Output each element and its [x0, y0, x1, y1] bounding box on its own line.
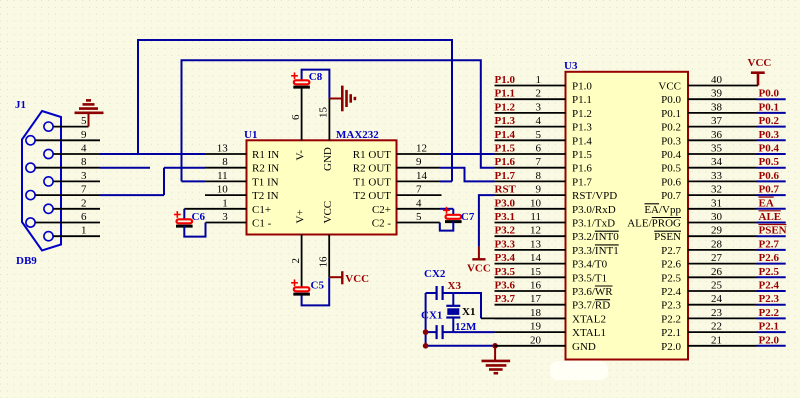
svg-text:P1.1: P1.1 — [572, 94, 592, 106]
wire top bus 2 left drop to T1 IN — [182, 180, 206, 182]
svg-text:16: 16 — [530, 280, 542, 292]
svg-text:P2.7: P2.7 — [661, 245, 681, 257]
U1 left pin names — [252, 149, 279, 230]
svg-text:23: 23 — [711, 307, 723, 319]
capacitor C5 — [291, 277, 329, 305]
svg-text:27: 27 — [711, 252, 723, 264]
svg-text:P0.6: P0.6 — [661, 176, 681, 188]
svg-text:P3.4: P3.4 — [495, 252, 516, 264]
svg-text:P2.4: P2.4 — [759, 280, 780, 292]
svg-text:V+: V+ — [295, 209, 307, 223]
svg-text:VCC: VCC — [658, 81, 681, 93]
svg-text:XTAL2: XTAL2 — [572, 313, 606, 325]
svg-text:P1.5: P1.5 — [572, 149, 592, 161]
capacitor C8 — [291, 70, 329, 99]
svg-text:12: 12 — [416, 143, 427, 155]
svg-text:16: 16 — [318, 256, 330, 268]
U3 right pin names — [627, 81, 681, 353]
svg-text:40: 40 — [711, 74, 723, 86]
svg-text:P1.2: P1.2 — [495, 101, 516, 113]
svg-text:31: 31 — [711, 197, 722, 209]
svg-text:11: 11 — [217, 170, 228, 182]
svg-text:P1.7: P1.7 — [495, 170, 516, 182]
U1 right pin stubs and numbers — [397, 143, 442, 224]
U1 pin 15 stub (GND) — [328, 99, 330, 141]
svg-text:VCC: VCC — [345, 273, 369, 285]
svg-text:C8: C8 — [309, 71, 323, 83]
svg-text:3: 3 — [222, 211, 228, 223]
svg-text:P0.6: P0.6 — [759, 170, 780, 182]
svg-text:P2.6: P2.6 — [759, 252, 780, 264]
svg-text:26: 26 — [711, 266, 723, 278]
svg-text:MAX232: MAX232 — [336, 129, 379, 141]
svg-text:ALE: ALE — [759, 211, 782, 223]
svg-text:2: 2 — [290, 258, 302, 264]
junction rail-GND — [423, 343, 429, 349]
svg-text:22: 22 — [711, 321, 722, 333]
svg-text:7: 7 — [81, 184, 87, 196]
svg-text:3: 3 — [81, 170, 87, 182]
svg-text:T2 OUT: T2 OUT — [353, 190, 391, 202]
svg-text:P1.0: P1.0 — [495, 74, 516, 86]
svg-text:XTAL1: XTAL1 — [572, 327, 606, 339]
svg-text:P1.7: P1.7 — [572, 176, 592, 188]
wire riser DB9 pin7 to R2 IN row — [163, 168, 165, 195]
svg-text:U3: U3 — [564, 60, 578, 72]
svg-text:14: 14 — [530, 252, 542, 264]
junction GND node — [492, 343, 498, 349]
svg-text:P3.2: P3.2 — [495, 225, 516, 237]
svg-text:CX2: CX2 — [424, 268, 446, 280]
svg-text:P1.5: P1.5 — [495, 143, 516, 155]
svg-text:P2.0: P2.0 — [661, 341, 681, 353]
svg-text:R2 OUT: R2 OUT — [353, 163, 391, 175]
U1 left pin stubs and numbers — [184, 143, 246, 224]
svg-text:29: 29 — [711, 225, 723, 237]
svg-text:C1 -: C1 - — [252, 218, 272, 230]
svg-text:8: 8 — [81, 156, 87, 168]
wire DB9.4 net to top bus 1 — [138, 40, 452, 181]
U1 pin 16 stub (VCC) — [328, 235, 330, 278]
svg-text:R1 IN: R1 IN — [252, 149, 279, 161]
VCC symbol at U1 pin 16 — [329, 271, 369, 285]
svg-text:P1.6: P1.6 — [572, 163, 592, 175]
svg-text:35: 35 — [711, 143, 723, 155]
svg-text:X3: X3 — [448, 280, 462, 292]
U3 left pin stubs and numbers — [495, 74, 566, 346]
svg-text:7: 7 — [536, 156, 542, 168]
svg-text:EA/Vpp: EA/Vpp — [644, 204, 681, 216]
svg-text:1: 1 — [81, 225, 87, 237]
erased watermark blob — [550, 361, 608, 380]
svg-text:P1.6: P1.6 — [495, 156, 516, 168]
svg-text:28: 28 — [711, 238, 723, 250]
J1 pin 4 wire and number (net to R1 IN) — [53, 153, 100, 155]
crystal X1 — [446, 293, 460, 332]
svg-text:1: 1 — [536, 74, 542, 86]
svg-text:P0.1: P0.1 — [759, 101, 779, 113]
svg-text:P1.1: P1.1 — [495, 88, 515, 100]
wire crystal left rail — [425, 293, 427, 346]
svg-text:P1.4: P1.4 — [495, 129, 516, 141]
svg-text:9: 9 — [536, 184, 542, 196]
svg-text:2: 2 — [81, 197, 87, 209]
U3 right pin stubs and numbers — [688, 74, 786, 346]
svg-text:34: 34 — [711, 156, 723, 168]
svg-text:8: 8 — [222, 156, 228, 168]
svg-text:P1.2: P1.2 — [572, 108, 592, 120]
svg-text:P3.1/TxD: P3.1/TxD — [572, 218, 615, 230]
svg-text:P1.3: P1.3 — [495, 115, 516, 127]
svg-text:21: 21 — [711, 334, 722, 346]
IC U3 89C51 body — [566, 72, 689, 360]
svg-text:CX1: CX1 — [421, 310, 442, 322]
svg-text:P3.2/INT0: P3.2/INT0 — [572, 231, 619, 243]
svg-text:12: 12 — [530, 225, 541, 237]
svg-text:P0.2: P0.2 — [759, 115, 780, 127]
svg-text:P0.5: P0.5 — [661, 163, 681, 175]
svg-text:P2.5: P2.5 — [759, 266, 780, 278]
svg-text:P0.7: P0.7 — [759, 184, 780, 196]
svg-text:P2.5: P2.5 — [661, 272, 681, 284]
svg-text:P3.7: P3.7 — [495, 293, 516, 305]
capacitor CX1 — [426, 325, 454, 339]
IC U1 MAX232 body — [247, 140, 397, 234]
svg-text:C1+: C1+ — [252, 204, 271, 216]
capacitor C6 — [174, 209, 206, 237]
svg-text:1: 1 — [222, 197, 228, 209]
svg-text:38: 38 — [711, 101, 723, 113]
ground symbol at U3 GND — [482, 346, 511, 373]
svg-text:5: 5 — [536, 129, 542, 141]
svg-text:2: 2 — [536, 88, 542, 100]
svg-text:17: 17 — [530, 293, 542, 305]
junction rail-CX1 — [423, 329, 429, 335]
ground symbol at J1 pin 5 — [75, 100, 104, 126]
svg-text:4: 4 — [81, 143, 87, 155]
svg-text:P2.3: P2.3 — [759, 293, 780, 305]
svg-text:P3.5: P3.5 — [495, 266, 516, 278]
svg-text:9: 9 — [81, 129, 87, 141]
svg-text:P1.3: P1.3 — [572, 122, 592, 134]
svg-text:EA: EA — [759, 197, 774, 209]
svg-text:R2 IN: R2 IN — [252, 163, 279, 175]
capacitor C7 — [440, 207, 462, 231]
svg-text:GND: GND — [322, 147, 334, 171]
svg-text:10: 10 — [530, 197, 542, 209]
J1 pin 7 wire and number (net to R2 IN) — [35, 194, 100, 196]
wire GND row to rail — [426, 345, 496, 347]
svg-text:P2.2: P2.2 — [759, 307, 780, 319]
svg-text:P2.1: P2.1 — [759, 321, 779, 333]
svg-text:P2.0: P2.0 — [759, 334, 780, 346]
J1 pin 9 wire and number — [35, 139, 100, 141]
svg-text:PSEN: PSEN — [759, 225, 787, 237]
svg-text:P3.6: P3.6 — [495, 280, 516, 292]
svg-text:R1 OUT: R1 OUT — [353, 149, 391, 161]
svg-text:C2 -: C2 - — [372, 218, 392, 230]
svg-text:20: 20 — [530, 334, 542, 346]
VCC symbol at U3 pin 40 — [748, 57, 772, 86]
svg-text:P2.7: P2.7 — [759, 238, 780, 250]
svg-text:33: 33 — [711, 170, 723, 182]
wire top bus 2 to T1 IN and P1.6 — [182, 60, 495, 181]
wire R1 OUT to P1.5 — [440, 153, 495, 155]
svg-text:24: 24 — [711, 293, 723, 305]
svg-text:P0.0: P0.0 — [661, 94, 681, 106]
connector J1 DB9 body — [22, 111, 61, 251]
svg-text:DB9: DB9 — [16, 255, 37, 267]
svg-text:P3.6/WR: P3.6/WR — [572, 286, 613, 298]
svg-text:J1: J1 — [15, 99, 26, 111]
U3 left pin names — [572, 81, 619, 353]
svg-text:6: 6 — [81, 211, 87, 223]
svg-text:VCC: VCC — [467, 263, 491, 275]
svg-text:13: 13 — [530, 238, 542, 250]
svg-text:T2 IN: T2 IN — [252, 190, 279, 202]
svg-text:8: 8 — [536, 170, 542, 182]
svg-text:V-: V- — [295, 150, 307, 161]
U1 center labels V- GND V+ VCC — [295, 147, 335, 223]
svg-text:P0.4: P0.4 — [759, 143, 780, 155]
capacitor CX2 — [426, 286, 454, 300]
svg-text:15: 15 — [530, 266, 542, 278]
J1 pin 3 wire and number — [53, 180, 100, 182]
wire RST to VCC — [479, 195, 495, 247]
svg-text:30: 30 — [711, 211, 723, 223]
ground symbol at U1 pin 15 — [329, 86, 355, 112]
svg-text:4: 4 — [536, 115, 542, 127]
U1 right pin names — [353, 149, 392, 230]
J1 pin 8 wire and number — [35, 167, 100, 169]
svg-text:GND: GND — [572, 341, 596, 353]
svg-text:P2.4: P2.4 — [661, 286, 681, 298]
svg-text:T1 OUT: T1 OUT — [353, 176, 391, 188]
svg-text:C2+: C2+ — [372, 204, 391, 216]
svg-text:14: 14 — [416, 170, 428, 182]
J1 pin 6 wire and number — [35, 222, 100, 224]
svg-text:4: 4 — [416, 197, 422, 209]
svg-text:P3.0/RxD: P3.0/RxD — [572, 204, 616, 216]
svg-text:ALE/PROG: ALE/PROG — [627, 218, 681, 230]
svg-text:P0.4: P0.4 — [661, 149, 681, 161]
svg-text:P3.5/T1: P3.5/T1 — [572, 272, 607, 284]
VCC symbol at RST — [467, 247, 491, 275]
svg-text:P2.1: P2.1 — [661, 327, 681, 339]
svg-text:9: 9 — [416, 156, 422, 168]
svg-text:5: 5 — [81, 115, 87, 127]
svg-text:37: 37 — [711, 115, 723, 127]
svg-text:P2.2: P2.2 — [661, 313, 681, 325]
svg-text:C6: C6 — [192, 211, 206, 223]
svg-text:P3.1: P3.1 — [495, 211, 515, 223]
svg-text:P0.5: P0.5 — [759, 156, 780, 168]
wire R2 OUT jog to P1.7 — [440, 168, 495, 182]
svg-text:VCC: VCC — [322, 201, 334, 224]
svg-text:P0.3: P0.3 — [759, 129, 780, 141]
svg-text:RST/VPD: RST/VPD — [572, 190, 617, 202]
svg-text:32: 32 — [711, 184, 722, 196]
svg-text:P3.7/RD: P3.7/RD — [572, 300, 610, 312]
svg-text:13: 13 — [217, 143, 229, 155]
svg-text:P0.2: P0.2 — [661, 122, 681, 134]
J1 pin 2 wire and number — [53, 208, 100, 210]
svg-text:11: 11 — [530, 211, 541, 223]
wire crystal top node to XTAL2 — [453, 293, 481, 318]
svg-text:P0.0: P0.0 — [759, 88, 780, 100]
svg-text:7: 7 — [416, 184, 422, 196]
svg-text:6: 6 — [290, 114, 302, 120]
svg-text:10: 10 — [217, 184, 229, 196]
svg-text:P3.3: P3.3 — [495, 238, 516, 250]
svg-text:P0.1: P0.1 — [661, 108, 681, 120]
svg-text:X1: X1 — [462, 306, 475, 318]
svg-text:PSEN: PSEN — [654, 231, 681, 243]
svg-text:P2.3: P2.3 — [661, 300, 681, 312]
svg-text:P0.7: P0.7 — [661, 190, 681, 202]
J1 pin 5 wire and number — [53, 126, 88, 128]
svg-text:C5: C5 — [311, 280, 325, 292]
svg-text:VCC: VCC — [748, 57, 772, 69]
svg-text:T1 IN: T1 IN — [252, 176, 279, 188]
svg-text:U1: U1 — [244, 129, 257, 141]
svg-text:25: 25 — [711, 280, 723, 292]
svg-text:36: 36 — [711, 129, 723, 141]
svg-text:19: 19 — [530, 321, 542, 333]
svg-text:3: 3 — [536, 101, 542, 113]
J1 pin 1 wire and number — [53, 235, 100, 237]
svg-text:P0.3: P0.3 — [661, 135, 681, 147]
wire T1 OUT to top bus 1 — [440, 180, 452, 182]
svg-text:6: 6 — [536, 143, 542, 155]
svg-text:39: 39 — [711, 88, 723, 100]
svg-text:P3.4/T0: P3.4/T0 — [572, 259, 608, 271]
U1 pin 2 stub (V+) — [301, 235, 303, 288]
svg-text:5: 5 — [416, 211, 422, 223]
U1 pin 6 stub (V-) — [301, 87, 303, 140]
svg-text:P2.6: P2.6 — [661, 259, 681, 271]
svg-text:C7: C7 — [461, 211, 475, 223]
svg-text:P3.3/INT1: P3.3/INT1 — [572, 245, 619, 257]
svg-text:18: 18 — [530, 307, 542, 319]
svg-text:P1.4: P1.4 — [572, 135, 592, 147]
svg-text:RST: RST — [495, 184, 517, 196]
wire XTAL1 node — [453, 331, 494, 333]
svg-text:15: 15 — [318, 107, 330, 119]
svg-text:P3.0: P3.0 — [495, 197, 516, 209]
svg-text:P1.0: P1.0 — [572, 81, 592, 93]
